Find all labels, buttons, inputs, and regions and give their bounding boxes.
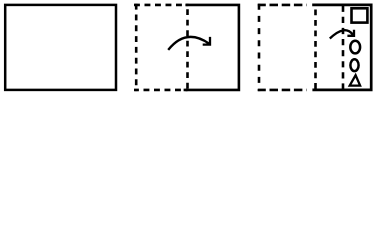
panel 1: solid paper rectangle	[5, 5, 116, 90]
panel 3: dashed fold line 1	[314, 4, 317, 91]
panel 2: dashed left-half bottom edge	[134, 89, 188, 92]
panel 2: dashed fold line (middle vertical)	[186, 4, 189, 91]
panel 3: dashed previous-position rect top edge	[258, 4, 307, 7]
panel 3: fold arrow arc	[330, 30, 353, 38]
panel 3: circle shape 2	[350, 59, 358, 71]
panel 3: triangle shape	[350, 75, 360, 85]
panel 2: fold arrow head	[203, 37, 210, 45]
panel 3: square shape	[352, 8, 368, 22]
panel 3: dashed fold line 2	[342, 4, 345, 91]
panel 3: fold arrow head	[347, 30, 354, 36]
panel 3: solid folded sheet (top, right, bottom)	[312, 5, 371, 90]
panel 2: dashed left edge	[135, 4, 138, 91]
panel 3: circle shape 1	[350, 41, 360, 54]
panel 2: solid right half (top, right, bottom)	[184, 5, 239, 90]
panel 2: dashed left-half top edge	[134, 4, 188, 7]
panel 2: fold arrow arc	[168, 37, 209, 50]
panel 3: dashed left edge	[258, 4, 261, 91]
panel 3: dashed bottom edge	[258, 89, 307, 92]
